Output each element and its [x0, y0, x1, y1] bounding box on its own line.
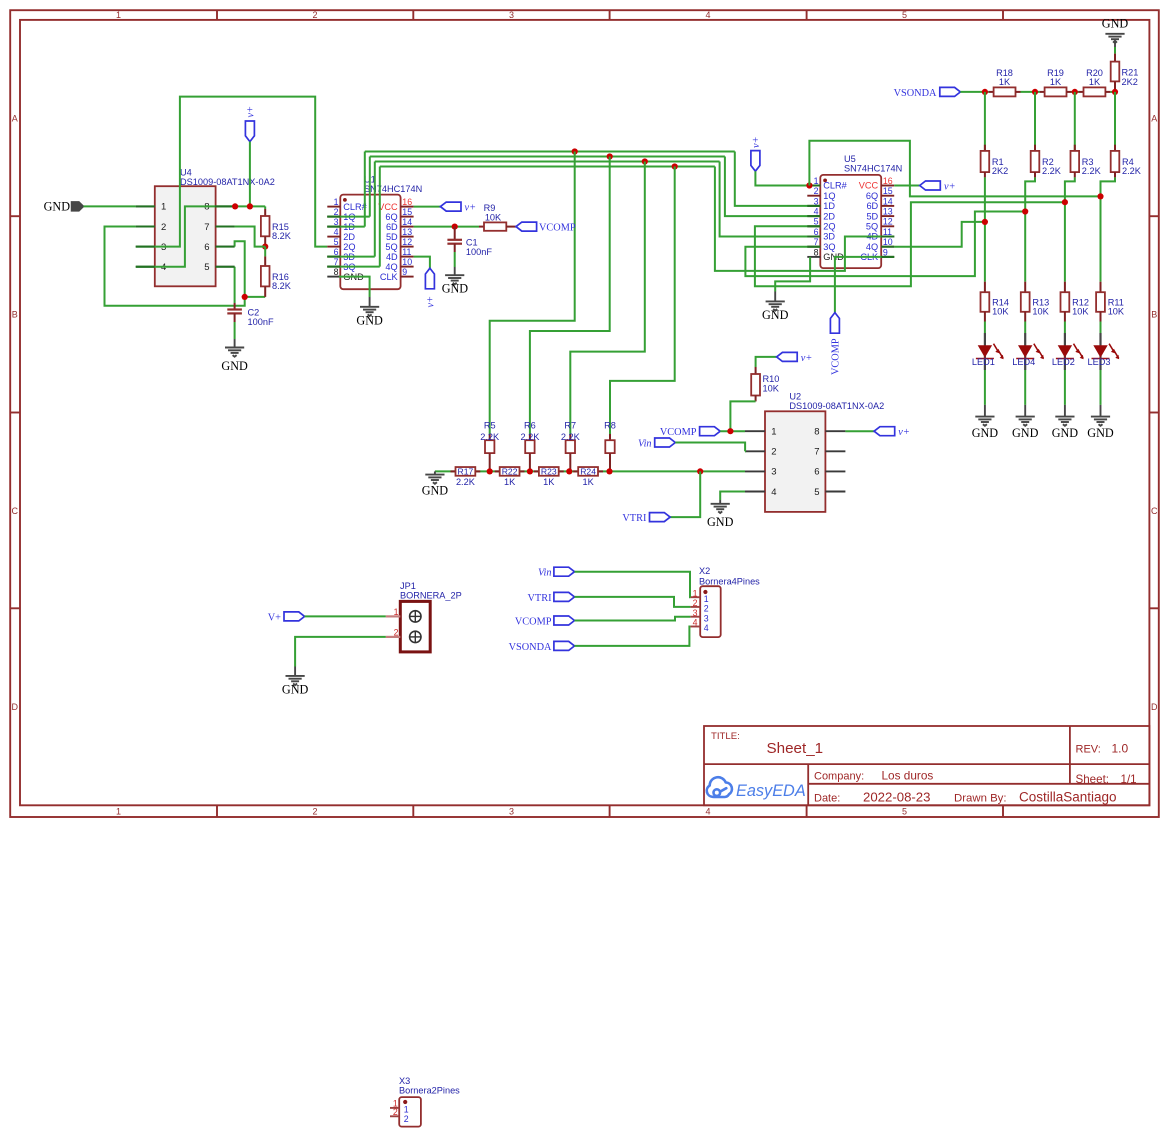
- svg-text:10K: 10K: [992, 307, 1009, 317]
- svg-text:1: 1: [404, 1104, 409, 1114]
- svg-text:13: 13: [883, 207, 893, 217]
- svg-text:2: 2: [404, 1114, 409, 1124]
- svg-text:GND: GND: [356, 314, 383, 328]
- svg-text:4: 4: [705, 10, 710, 20]
- svg-text:Vin: Vin: [538, 568, 552, 579]
- svg-text:2022-08-23: 2022-08-23: [863, 790, 930, 805]
- svg-text:B: B: [1151, 310, 1157, 320]
- svg-text:8: 8: [814, 247, 819, 257]
- svg-text:2.2K: 2.2K: [1082, 166, 1102, 176]
- svg-text:9: 9: [883, 247, 888, 257]
- svg-text:REV:: REV:: [1076, 744, 1101, 756]
- svg-text:VSONDA: VSONDA: [894, 88, 937, 99]
- svg-text:V+: V+: [268, 612, 281, 623]
- svg-text:1/1: 1/1: [1121, 773, 1137, 786]
- svg-text:4D: 4D: [386, 252, 398, 262]
- svg-text:10: 10: [402, 257, 412, 267]
- svg-text:2K2: 2K2: [1122, 77, 1138, 87]
- svg-text:VCOMP: VCOMP: [660, 427, 697, 438]
- svg-text:VCOMP: VCOMP: [539, 223, 576, 234]
- svg-text:v+: v+: [944, 181, 956, 192]
- svg-text:VCOMP: VCOMP: [515, 616, 552, 627]
- svg-text:Vin: Vin: [638, 438, 652, 449]
- svg-text:3Q: 3Q: [823, 242, 835, 252]
- svg-text:GND: GND: [707, 515, 734, 529]
- svg-text:3: 3: [704, 613, 709, 623]
- svg-text:10K: 10K: [485, 212, 502, 222]
- svg-text:100nF: 100nF: [248, 317, 274, 327]
- svg-text:2.2K: 2.2K: [1042, 166, 1062, 176]
- svg-text:4: 4: [705, 807, 710, 817]
- svg-text:1: 1: [161, 202, 166, 213]
- svg-text:GND: GND: [422, 484, 449, 498]
- svg-text:A: A: [1151, 113, 1157, 123]
- svg-text:2: 2: [393, 1107, 398, 1117]
- svg-text:2D: 2D: [343, 232, 355, 242]
- svg-text:Sheet:: Sheet:: [1076, 773, 1110, 786]
- svg-text:10: 10: [883, 237, 893, 247]
- svg-text:1: 1: [116, 10, 121, 20]
- svg-text:GND: GND: [1012, 426, 1039, 440]
- svg-text:LED1: LED1: [972, 357, 995, 367]
- svg-text:6: 6: [204, 242, 209, 253]
- svg-text:2: 2: [704, 604, 709, 614]
- svg-text:DS1009-08AT1NX-0A2: DS1009-08AT1NX-0A2: [789, 401, 884, 411]
- svg-text:1.0: 1.0: [1112, 742, 1129, 756]
- svg-text:Los duros: Los duros: [882, 769, 934, 783]
- svg-text:8: 8: [814, 427, 819, 438]
- svg-text:5: 5: [204, 262, 209, 273]
- svg-text:6D: 6D: [866, 201, 878, 211]
- svg-text:LED2: LED2: [1052, 357, 1075, 367]
- svg-text:7: 7: [334, 257, 339, 267]
- svg-text:R24: R24: [580, 467, 596, 477]
- svg-text:6: 6: [334, 247, 339, 257]
- svg-text:3: 3: [334, 217, 339, 227]
- svg-text:2.2K: 2.2K: [456, 477, 476, 487]
- svg-text:Date:: Date:: [814, 793, 840, 805]
- svg-text:4: 4: [693, 618, 698, 628]
- svg-text:1: 1: [704, 594, 709, 604]
- svg-text:2: 2: [394, 627, 399, 637]
- svg-text:1K: 1K: [999, 77, 1011, 87]
- svg-text:GND: GND: [1102, 17, 1129, 31]
- svg-text:1Q: 1Q: [823, 191, 835, 201]
- svg-text:8: 8: [334, 267, 339, 277]
- svg-text:v+: v+: [426, 296, 437, 308]
- svg-text:1: 1: [116, 807, 121, 817]
- svg-text:2Q: 2Q: [823, 222, 835, 232]
- svg-text:6Q: 6Q: [866, 191, 878, 201]
- svg-text:2: 2: [814, 186, 819, 196]
- svg-text:5D: 5D: [386, 232, 398, 242]
- svg-text:X2: X2: [699, 566, 710, 576]
- svg-text:Sheet_1: Sheet_1: [767, 740, 824, 757]
- svg-text:5: 5: [902, 10, 907, 20]
- svg-text:1D: 1D: [823, 201, 835, 211]
- svg-text:15: 15: [883, 186, 893, 196]
- svg-text:CostillaSantiago: CostillaSantiago: [1019, 790, 1117, 805]
- svg-text:8.2K: 8.2K: [272, 281, 292, 291]
- svg-text:4: 4: [771, 487, 776, 498]
- svg-text:11: 11: [883, 227, 892, 237]
- svg-text:Bornera2Pines: Bornera2Pines: [399, 1086, 460, 1096]
- svg-text:4: 4: [704, 623, 709, 633]
- svg-text:1: 1: [814, 176, 819, 186]
- svg-text:2.2K: 2.2K: [520, 432, 540, 442]
- svg-text:v+: v+: [801, 353, 813, 364]
- svg-text:VTRI: VTRI: [622, 513, 647, 524]
- svg-text:7: 7: [814, 237, 819, 247]
- svg-text:GND: GND: [1052, 426, 1079, 440]
- svg-text:1K: 1K: [1089, 77, 1101, 87]
- svg-text:VSONDA: VSONDA: [509, 642, 552, 653]
- svg-text:1K: 1K: [582, 477, 594, 487]
- svg-text:6D: 6D: [386, 222, 398, 232]
- svg-text:SN74HC174N: SN74HC174N: [844, 163, 902, 173]
- svg-text:B: B: [12, 310, 18, 320]
- svg-text:2: 2: [693, 598, 698, 608]
- svg-text:16: 16: [883, 176, 893, 186]
- svg-text:3: 3: [693, 608, 698, 618]
- svg-text:SN74HC174N: SN74HC174N: [364, 184, 422, 194]
- svg-text:X3: X3: [399, 1076, 410, 1086]
- svg-text:GND: GND: [282, 683, 309, 697]
- svg-text:VCC: VCC: [378, 202, 398, 212]
- svg-text:GND: GND: [44, 200, 71, 214]
- svg-text:LED3: LED3: [1088, 357, 1111, 367]
- svg-text:v+: v+: [246, 106, 257, 118]
- svg-text:v+: v+: [751, 136, 762, 148]
- svg-text:R8: R8: [604, 421, 616, 431]
- svg-text:3: 3: [509, 807, 514, 817]
- svg-text:6: 6: [814, 467, 819, 478]
- svg-text:1K: 1K: [1050, 77, 1062, 87]
- svg-text:R6: R6: [524, 421, 536, 431]
- svg-text:5: 5: [814, 217, 819, 227]
- svg-text:2: 2: [312, 10, 317, 20]
- svg-text:1: 1: [394, 607, 399, 617]
- svg-text:D: D: [1151, 702, 1158, 712]
- svg-text:5Q: 5Q: [385, 242, 397, 252]
- svg-text:5: 5: [814, 487, 819, 498]
- svg-text:v+: v+: [465, 202, 477, 213]
- svg-text:Drawn By:: Drawn By:: [954, 793, 1007, 805]
- svg-text:12: 12: [883, 217, 893, 227]
- svg-text:14: 14: [402, 217, 412, 227]
- svg-text:100nF: 100nF: [466, 247, 492, 257]
- svg-text:2.2K: 2.2K: [480, 432, 500, 442]
- svg-text:GND: GND: [221, 359, 248, 373]
- svg-text:2.2K: 2.2K: [1122, 166, 1142, 176]
- svg-text:4: 4: [814, 207, 819, 217]
- svg-text:2Q: 2Q: [343, 242, 355, 252]
- svg-text:VTRI: VTRI: [527, 593, 552, 604]
- svg-text:10K: 10K: [1108, 307, 1125, 317]
- svg-text:2: 2: [161, 222, 166, 233]
- svg-text:1: 1: [334, 197, 339, 207]
- svg-text:C: C: [1151, 506, 1158, 516]
- svg-text:C: C: [12, 506, 19, 516]
- svg-text:BORNERA_2P: BORNERA_2P: [400, 591, 462, 601]
- svg-text:2.2K: 2.2K: [561, 432, 581, 442]
- svg-text:5D: 5D: [866, 211, 878, 221]
- svg-text:16: 16: [402, 197, 412, 207]
- svg-text:2: 2: [771, 447, 776, 458]
- svg-text:R5: R5: [484, 421, 496, 431]
- svg-text:3: 3: [771, 467, 776, 478]
- svg-text:1: 1: [771, 427, 776, 438]
- svg-text:R23: R23: [541, 467, 557, 477]
- svg-text:2D: 2D: [823, 211, 835, 221]
- svg-text:3: 3: [814, 196, 819, 206]
- svg-text:13: 13: [402, 227, 412, 237]
- svg-text:14: 14: [883, 196, 893, 206]
- svg-text:Company:: Company:: [814, 771, 864, 783]
- svg-text:GND: GND: [1087, 426, 1114, 440]
- svg-text:7: 7: [814, 447, 819, 458]
- svg-text:9: 9: [402, 267, 407, 277]
- svg-text:4: 4: [334, 227, 339, 237]
- svg-text:VCOMP: VCOMP: [831, 338, 842, 375]
- svg-text:CLR#: CLR#: [823, 181, 847, 191]
- svg-text:10K: 10K: [1032, 307, 1049, 317]
- svg-text:A: A: [12, 113, 18, 123]
- svg-text:Bornera4Pines: Bornera4Pines: [699, 577, 760, 587]
- svg-text:LED4: LED4: [1012, 357, 1035, 367]
- svg-text:1K: 1K: [504, 477, 516, 487]
- svg-text:1: 1: [693, 588, 698, 598]
- svg-text:GND: GND: [442, 282, 469, 296]
- svg-text:4Q: 4Q: [385, 262, 397, 272]
- svg-text:GND: GND: [972, 426, 999, 440]
- svg-text:2: 2: [334, 207, 339, 217]
- svg-text:1K: 1K: [543, 477, 555, 487]
- svg-text:GND: GND: [762, 308, 789, 322]
- svg-text:2: 2: [312, 807, 317, 817]
- svg-text:6Q: 6Q: [385, 212, 397, 222]
- svg-text:5Q: 5Q: [866, 222, 878, 232]
- svg-text:10K: 10K: [1072, 307, 1089, 317]
- svg-text:3D: 3D: [823, 232, 835, 242]
- svg-text:R17: R17: [458, 467, 474, 477]
- svg-text:EasyEDA: EasyEDA: [736, 782, 806, 800]
- svg-text:R22: R22: [502, 467, 518, 477]
- svg-text:12: 12: [402, 237, 412, 247]
- svg-text:10K: 10K: [763, 383, 780, 393]
- svg-text:CLK: CLK: [380, 272, 399, 282]
- svg-text:8.2K: 8.2K: [272, 231, 292, 241]
- svg-text:11: 11: [402, 247, 411, 257]
- svg-text:3: 3: [509, 10, 514, 20]
- svg-text:15: 15: [402, 207, 412, 217]
- svg-text:v+: v+: [898, 427, 910, 438]
- svg-text:D: D: [12, 702, 19, 712]
- svg-text:5: 5: [902, 807, 907, 817]
- svg-text:R7: R7: [564, 421, 576, 431]
- svg-text:7: 7: [204, 222, 209, 233]
- svg-text:6: 6: [814, 227, 819, 237]
- svg-text:5: 5: [334, 237, 339, 247]
- svg-text:2K2: 2K2: [992, 166, 1008, 176]
- svg-text:4Q: 4Q: [866, 242, 878, 252]
- svg-text:VCC: VCC: [859, 181, 879, 191]
- svg-text:TITLE:: TITLE:: [711, 731, 740, 742]
